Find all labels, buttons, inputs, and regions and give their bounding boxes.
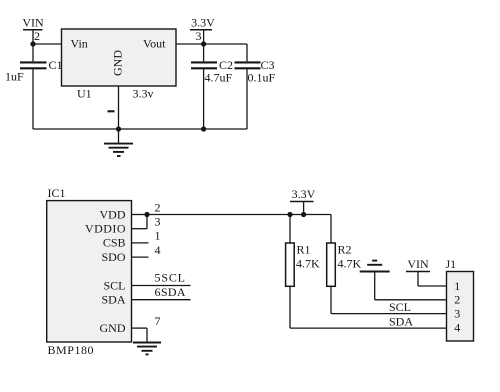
svg-text:IC1: IC1 bbox=[48, 186, 66, 200]
svg-text:Vout: Vout bbox=[143, 37, 166, 51]
svg-text:U1: U1 bbox=[77, 87, 92, 101]
svg-text:J1: J1 bbox=[446, 257, 457, 271]
svg-text:4.7K: 4.7K bbox=[338, 257, 362, 271]
svg-text:3.3V: 3.3V bbox=[191, 16, 215, 30]
svg-text:3.3v: 3.3v bbox=[133, 87, 154, 101]
svg-text:CSB: CSB bbox=[103, 236, 126, 250]
svg-text:7: 7 bbox=[155, 314, 161, 328]
svg-text:3: 3 bbox=[155, 215, 161, 229]
svg-text:SDO: SDO bbox=[101, 250, 125, 264]
svg-text:4: 4 bbox=[454, 320, 460, 334]
svg-text:5SCL: 5SCL bbox=[155, 270, 186, 284]
svg-text:SDA: SDA bbox=[101, 293, 125, 307]
svg-text:0.1uF: 0.1uF bbox=[248, 71, 276, 85]
svg-text:3: 3 bbox=[454, 307, 460, 321]
svg-text:1uF: 1uF bbox=[5, 70, 24, 84]
svg-text:R2: R2 bbox=[338, 243, 352, 257]
svg-text:Vin: Vin bbox=[71, 37, 88, 51]
svg-text:C1: C1 bbox=[49, 58, 63, 72]
svg-text:R1: R1 bbox=[297, 243, 311, 257]
svg-text:3: 3 bbox=[196, 29, 202, 43]
svg-text:4.7K: 4.7K bbox=[296, 257, 320, 271]
svg-text:2: 2 bbox=[454, 293, 460, 307]
svg-text:4.7uF: 4.7uF bbox=[205, 71, 233, 85]
svg-text:3.3V: 3.3V bbox=[292, 187, 316, 201]
svg-text:4: 4 bbox=[155, 243, 161, 257]
svg-text:2: 2 bbox=[34, 29, 40, 43]
svg-text:1: 1 bbox=[155, 229, 161, 243]
svg-text:SDA: SDA bbox=[389, 314, 413, 328]
svg-text:VIN: VIN bbox=[22, 16, 44, 30]
svg-text:6SDA: 6SDA bbox=[155, 285, 186, 299]
svg-text:VDD: VDD bbox=[100, 207, 126, 221]
svg-text:BMP180: BMP180 bbox=[48, 343, 94, 357]
svg-text:GND: GND bbox=[111, 50, 125, 76]
svg-text:VIN: VIN bbox=[407, 257, 429, 271]
svg-text:GND: GND bbox=[100, 321, 126, 335]
svg-text:VDDIO: VDDIO bbox=[85, 222, 126, 236]
svg-text:SCL: SCL bbox=[389, 300, 411, 314]
svg-text:2: 2 bbox=[155, 200, 161, 214]
svg-text:SCL: SCL bbox=[103, 278, 125, 292]
svg-text:1: 1 bbox=[454, 279, 460, 293]
